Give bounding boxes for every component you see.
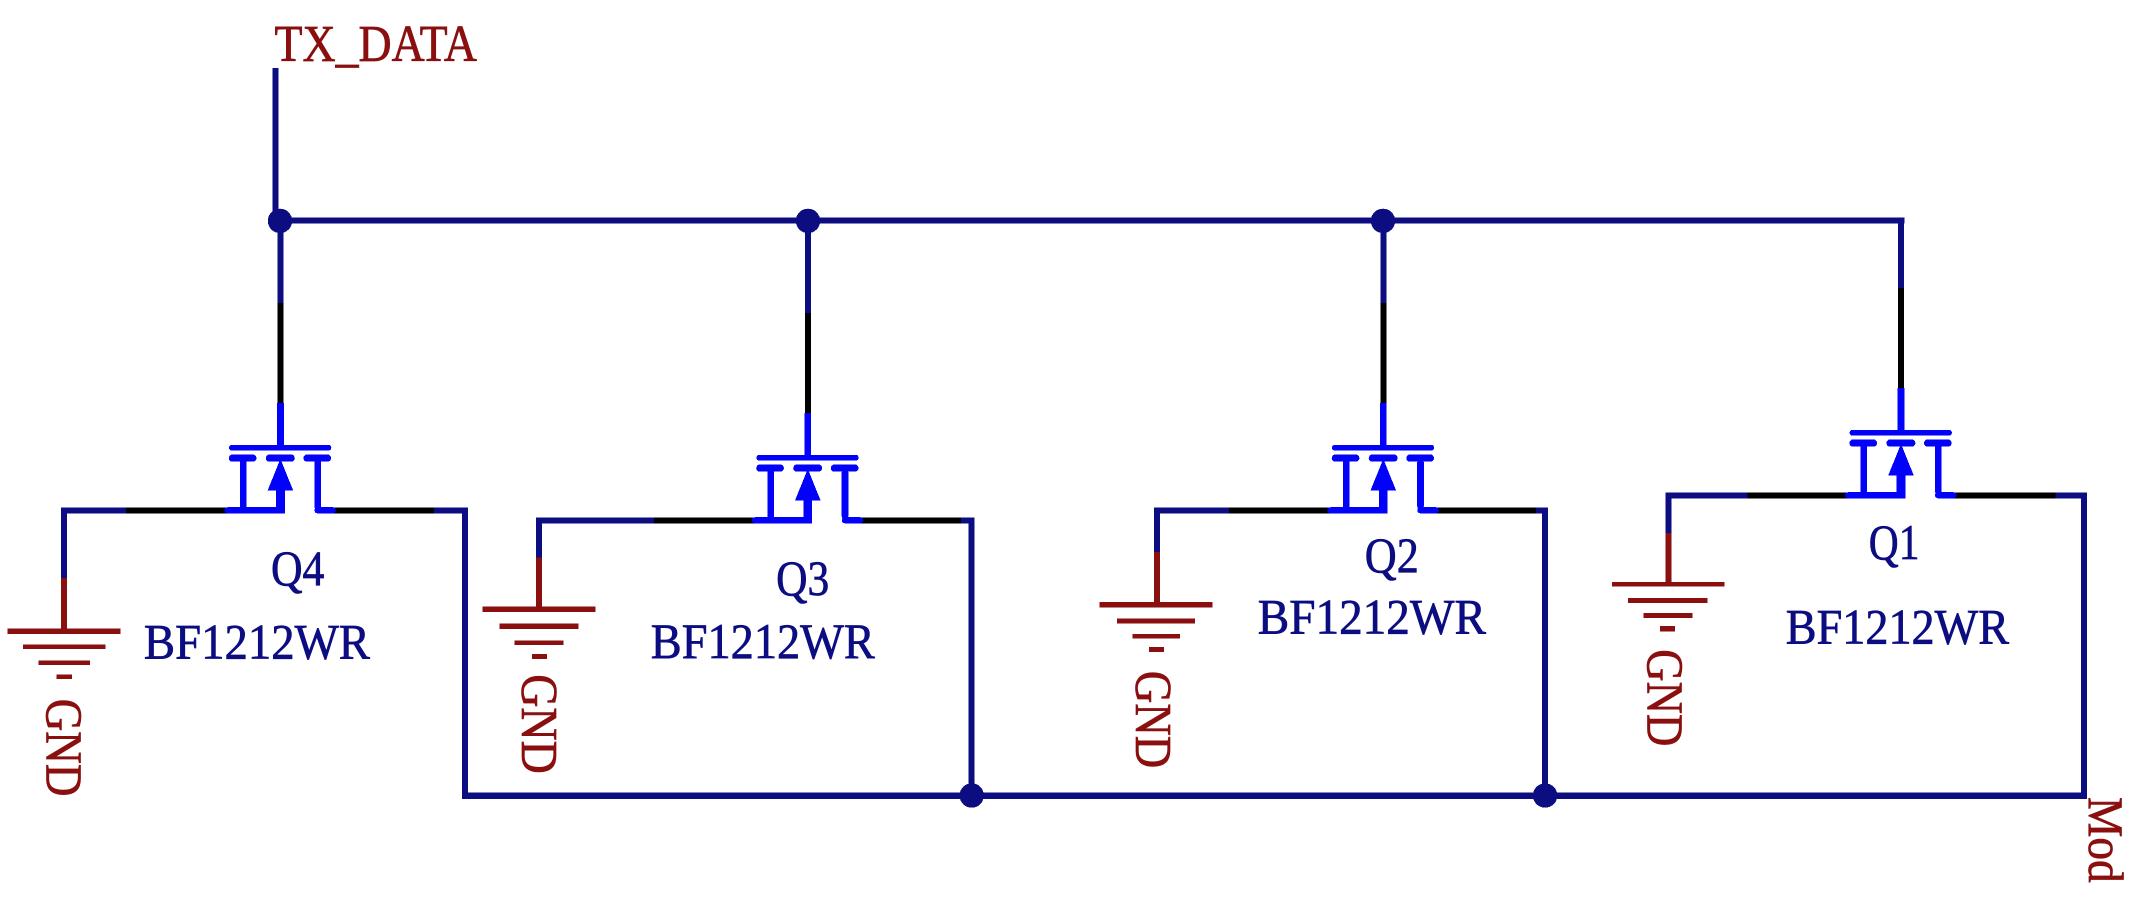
ground GND at Q1 : bar3 [1644, 613, 1693, 618]
transistor Q1 [1848, 388, 1954, 498]
ground GND at Q1 : bar1 [1612, 582, 1725, 587]
transistor Q3 [755, 413, 861, 523]
ground GND at Q3 : stem [536, 558, 542, 610]
svg-text:Mod: Mod [2078, 797, 2134, 883]
ground GND at Q3 : bar2 [500, 623, 579, 629]
wire Q1 gate vertical [1898, 218, 1904, 289]
pin Q1 gate [1898, 288, 1904, 388]
ground GND at Q4 : stem [61, 578, 67, 631]
svg-text:BF1212WR: BF1212WR [1786, 599, 2010, 655]
ground GND at Q2 : bar4 [1149, 647, 1164, 652]
ground GND at Q4 : bar1 [8, 629, 121, 635]
junction node Q2 gate [1371, 209, 1395, 233]
wire Q3 drain down to bottom rail [969, 517, 975, 799]
ground GND at Q1 : bar2 [1628, 598, 1707, 603]
svg-text:GND: GND [1124, 671, 1181, 768]
svg-text:GND: GND [510, 674, 567, 774]
junction node bottom rail Q2 drain [1533, 783, 1557, 807]
wire top rail horizontal [273, 217, 1905, 223]
wire Q1 source down to ground [1666, 492, 1672, 535]
ground GND at Q2 : bar1 [1099, 602, 1212, 607]
ground GND at Q4 : bar3 [39, 660, 90, 665]
pin Q2 source [1228, 507, 1332, 513]
wire TX_DATA vertical [273, 68, 279, 221]
svg-text:GND: GND [35, 699, 92, 797]
junction node Q3 gate [796, 209, 820, 233]
pin Q3 source [652, 517, 756, 523]
wire Q1 drain down to bottom rail [2081, 492, 2087, 799]
wire bottom rail horizontal [462, 793, 2087, 799]
ground GND at Q1 : stem [1666, 533, 1672, 585]
wire Q4 source down to ground [61, 507, 67, 580]
pin Q1 source [1746, 492, 1850, 498]
pin Q3 gate [805, 313, 811, 413]
wire Q4 source horizontal [61, 507, 126, 513]
svg-text:BF1212WR: BF1212WR [651, 613, 876, 669]
svg-text:Q3: Q3 [776, 550, 829, 606]
transistor Q2 [1330, 403, 1436, 513]
wire Q2 drain down to bottom rail [1542, 507, 1548, 799]
ground GND at Q4 : bar4 [56, 675, 72, 680]
wire Q1 drain horizontal [2056, 492, 2088, 498]
ground GND at Q2 : bar2 [1117, 619, 1195, 624]
ground GND at Q2 : bar3 [1132, 634, 1180, 639]
svg-text:BF1212WR: BF1212WR [144, 614, 371, 670]
ground GND at Q3 : bar4 [532, 654, 547, 659]
junction node Q4 gate [268, 209, 292, 233]
junction node bottom rail Q3 drain [960, 783, 984, 807]
pin Q2 gate [1380, 303, 1386, 403]
svg-text:Q2: Q2 [1365, 527, 1419, 583]
wire Q2 source horizontal [1154, 507, 1229, 513]
wire Q1 source horizontal [1666, 492, 1748, 498]
pin Q4 source [125, 507, 229, 513]
ground GND at Q3 : bar3 [515, 640, 564, 645]
wire Q3 gate vertical [805, 218, 811, 314]
svg-text:Q1: Q1 [1869, 514, 1920, 570]
wire Q2 drain horizontal [1536, 507, 1548, 513]
pin Q1 drain [1952, 492, 2058, 498]
pin Q3 drain [858, 517, 963, 523]
pin Q2 drain [1434, 507, 1539, 513]
pin Q4 drain [331, 507, 436, 513]
ground GND at Q1 : bar4 [1660, 626, 1675, 631]
wire Q4 drain horizontal [434, 507, 468, 513]
svg-text:BF1212WR: BF1212WR [1258, 588, 1487, 644]
wire Q3 source down to ground [536, 517, 542, 559]
ground GND at Q2 : stem [1154, 552, 1160, 605]
ground GND at Q3 : bar1 [483, 607, 596, 613]
wire Q2 gate vertical [1380, 218, 1386, 304]
svg-text:TX_DATA: TX_DATA [275, 16, 478, 73]
svg-text:GND: GND [1635, 649, 1692, 746]
wire Q4 gate vertical [277, 218, 283, 304]
transistor Q4 [227, 403, 333, 513]
wire Q3 drain horizontal [961, 517, 975, 523]
wire Q3 source horizontal [536, 517, 654, 523]
ground GND at Q4 : bar2 [23, 644, 105, 649]
wire Q4 drain down to bottom rail [462, 507, 468, 799]
svg-text:Q4: Q4 [271, 540, 324, 596]
wire Q2 source down to ground [1154, 507, 1160, 554]
pin Q4 gate [277, 303, 283, 403]
